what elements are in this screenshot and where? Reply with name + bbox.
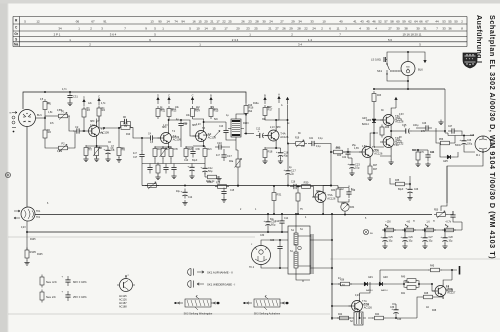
node T1e bbox=[96, 145, 98, 147]
wire T8 in bbox=[431, 283, 435, 291]
svg-text:NPF: NPF bbox=[90, 121, 95, 123]
wire DIN right bbox=[36, 117, 46, 119]
oscillator coil S2 bbox=[352, 309, 366, 325]
electrolytic C101 bbox=[200, 165, 213, 175]
wire node to R2 bbox=[44, 118, 46, 128]
svg-text:R105: R105 bbox=[30, 239, 36, 241]
svg-text:10: 10 bbox=[196, 27, 200, 31]
component locator table bbox=[13, 17, 467, 47]
capacitor C22 bbox=[342, 148, 351, 159]
svg-text:R45: R45 bbox=[430, 266, 435, 268]
potentiometer P1 bbox=[56, 110, 70, 120]
resistor R1 bbox=[43, 99, 51, 112]
svg-text:C14: C14 bbox=[275, 221, 280, 223]
record-play head TK1 bbox=[14, 207, 41, 221]
wire row y163 bbox=[142, 163, 205, 165]
capacitor C14 bbox=[275, 217, 285, 227]
supply arrow A4 bbox=[278, 92, 280, 103]
wire R16 top bbox=[245, 102, 247, 104]
svg-text:GR3: GR3 bbox=[366, 118, 372, 122]
diode GR1 bbox=[361, 282, 374, 292]
svg-text:C12: C12 bbox=[256, 129, 261, 131]
resistor R102 bbox=[25, 248, 36, 261]
wire input to P1 bbox=[45, 116, 56, 118]
svg-text:10µ: 10µ bbox=[449, 241, 454, 243]
svg-text:50µ: 50µ bbox=[208, 169, 213, 173]
svg-text:+: + bbox=[283, 168, 285, 172]
svg-text:R13: R13 bbox=[172, 109, 177, 111]
svg-text:R16: R16 bbox=[248, 105, 253, 107]
wire trimmer down bbox=[344, 211, 346, 214]
capacitor C29b bbox=[450, 211, 455, 221]
ground lower2 bbox=[171, 174, 176, 179]
svg-text:NPF: NPF bbox=[162, 127, 167, 129]
wire driver collector bbox=[370, 133, 374, 144]
wire R9 gnd bbox=[118, 157, 120, 160]
svg-text:2 3 4: 2 3 4 bbox=[232, 38, 239, 42]
svg-text:1,2V: 1,2V bbox=[196, 124, 201, 126]
ground C18 bbox=[278, 159, 283, 164]
wire T7 emitter bbox=[359, 314, 361, 319]
wire top feedback bus bbox=[23, 92, 246, 109]
svg-text:60: 60 bbox=[396, 20, 400, 24]
svg-text:C24: C24 bbox=[430, 152, 435, 154]
svg-text:R42: R42 bbox=[338, 314, 343, 316]
svg-text:36: 36 bbox=[448, 27, 452, 31]
wire R35 link bbox=[390, 176, 410, 186]
svg-text:14: 14 bbox=[166, 20, 170, 24]
svg-text:Na: Na bbox=[14, 42, 18, 46]
wire C9 loop bbox=[121, 122, 131, 128]
ground C101 bbox=[216, 176, 221, 181]
wire R33 top bbox=[331, 186, 349, 188]
wire r50 in bbox=[441, 166, 447, 211]
node trimmer bus bbox=[344, 214, 346, 216]
electrolytic C18 bbox=[276, 149, 289, 159]
svg-text:C22: C22 bbox=[342, 157, 347, 159]
svg-text:+: + bbox=[400, 235, 402, 239]
svg-text:R21: R21 bbox=[208, 149, 213, 151]
svg-text:1,1V: 1,1V bbox=[163, 125, 168, 127]
svg-text:R27: R27 bbox=[373, 165, 378, 167]
node out-left bbox=[373, 88, 375, 90]
svg-text:60µ: 60µ bbox=[270, 219, 275, 221]
oscillator coils bbox=[294, 226, 313, 274]
meas arrow 1 bbox=[385, 221, 391, 228]
svg-text:+: + bbox=[187, 164, 189, 168]
svg-text:C15: C15 bbox=[230, 190, 235, 192]
paper fold line lower bbox=[8, 313, 330, 315]
svg-text:GR2: GR2 bbox=[383, 277, 388, 279]
legend SK3 record bbox=[243, 296, 289, 316]
svg-text:Neu s%: Neu s% bbox=[46, 295, 56, 299]
motor M1 bbox=[475, 136, 491, 157]
terminal LS bbox=[384, 57, 387, 62]
DIN input socket BU1 bbox=[19, 110, 43, 127]
svg-text:C26: C26 bbox=[409, 237, 414, 239]
wire reg left bbox=[379, 270, 381, 284]
wire T8 emitter bbox=[435, 297, 443, 299]
svg-text:C2: C2 bbox=[75, 125, 79, 129]
resistor R100b bbox=[205, 175, 219, 183]
transistor T3 bbox=[193, 128, 217, 144]
wire bus y232 bbox=[27, 231, 288, 233]
svg-text:C28: C28 bbox=[449, 237, 454, 239]
svg-text:NPF: NPF bbox=[276, 127, 281, 129]
wire T5A base2 bbox=[373, 119, 383, 121]
legend cap1 bbox=[62, 276, 88, 287]
wire C101 link bbox=[204, 159, 206, 165]
ground T6A bbox=[389, 160, 394, 165]
node T4e bbox=[275, 147, 277, 149]
svg-text:M.1: M.1 bbox=[476, 154, 481, 157]
svg-text:R20: R20 bbox=[189, 149, 194, 151]
wire driver emitter bbox=[369, 160, 371, 165]
svg-text:1Ω: 1Ω bbox=[426, 307, 429, 309]
resistor R16 bbox=[244, 103, 254, 116]
resistor R16b bbox=[153, 146, 157, 159]
svg-text:GR3: GR3 bbox=[362, 118, 367, 120]
wire left vertical upper bbox=[26, 127, 28, 208]
svg-text:44: 44 bbox=[435, 20, 439, 24]
wire R16 bot bbox=[245, 114, 247, 134]
resistor R11 bbox=[156, 106, 166, 119]
ground lower1 bbox=[155, 175, 160, 180]
wire output right bbox=[412, 130, 446, 132]
wire motor down bbox=[446, 157, 448, 170]
svg-text:64: 64 bbox=[414, 20, 418, 24]
wire R2 to P2 bbox=[45, 141, 56, 149]
svg-text:AC109: AC109 bbox=[203, 134, 211, 137]
svg-text:67: 67 bbox=[425, 20, 429, 24]
wire GR3 down bbox=[373, 126, 375, 134]
svg-text:25V ± 10%: 25V ± 10% bbox=[73, 295, 87, 299]
resistor R30 bbox=[299, 181, 313, 189]
misc value labels bbox=[21, 99, 475, 323]
wire speaker bottom rail bbox=[387, 74, 408, 89]
svg-text:T.5A: T.5A bbox=[327, 193, 333, 197]
svg-text:10µ: 10µ bbox=[429, 241, 434, 243]
svg-text:+: + bbox=[180, 189, 182, 193]
wire R56 bbox=[436, 128, 455, 143]
svg-text:50: 50 bbox=[454, 20, 458, 24]
svg-text:C28: C28 bbox=[470, 135, 475, 137]
wire R33 bottom bbox=[338, 199, 349, 202]
svg-text:46: 46 bbox=[372, 20, 376, 24]
wire R3 junction bbox=[83, 120, 85, 132]
svg-text:AC132: AC132 bbox=[395, 141, 403, 144]
svg-text:BA114: BA114 bbox=[366, 289, 373, 292]
wire C17a down bbox=[141, 161, 143, 186]
wire R31 link bbox=[273, 186, 275, 214]
wire S1 top bbox=[295, 213, 297, 226]
svg-text:57: 57 bbox=[384, 20, 388, 24]
wire x332 vertical bbox=[331, 214, 333, 320]
svg-text:R26: R26 bbox=[385, 127, 390, 129]
capacitor C29 bbox=[277, 243, 282, 253]
wire dashed to speaker bbox=[390, 70, 401, 72]
ground R9 bbox=[116, 157, 121, 162]
svg-text:62: 62 bbox=[408, 20, 412, 24]
svg-text:25: 25 bbox=[254, 27, 258, 31]
svg-text:R30: R30 bbox=[304, 181, 309, 185]
svg-text:R16: R16 bbox=[158, 149, 163, 151]
wire P2 out bbox=[70, 131, 75, 148]
node x331 bus bbox=[330, 185, 332, 187]
input icons bbox=[10, 112, 18, 133]
svg-text:R10: R10 bbox=[126, 134, 131, 136]
svg-text:C17: C17 bbox=[227, 154, 232, 158]
wire coupling T2-T3 bbox=[169, 119, 196, 136]
wire P1 to T1 base bbox=[69, 116, 86, 131]
svg-text:T.4A: T.4A bbox=[280, 132, 286, 136]
node C21 out bbox=[330, 151, 332, 153]
wire reg top bbox=[380, 269, 457, 271]
svg-text:R31: R31 bbox=[277, 193, 282, 197]
svg-text:C30: C30 bbox=[260, 235, 265, 237]
resistor R53 bbox=[422, 228, 436, 232]
svg-text:33: 33 bbox=[310, 20, 314, 24]
svg-text:26: 26 bbox=[282, 27, 286, 31]
svg-text:R28a: R28a bbox=[207, 182, 213, 184]
svg-text:23: 23 bbox=[246, 27, 250, 31]
wire C29 link bbox=[279, 239, 281, 269]
svg-text:14: 14 bbox=[204, 27, 208, 31]
svg-text:29: 29 bbox=[289, 27, 293, 31]
svg-text:100µ: 100µ bbox=[467, 144, 473, 146]
resistor R51 bbox=[382, 228, 396, 232]
ground C10a bbox=[189, 174, 194, 179]
wire row3 bbox=[186, 145, 205, 148]
wire r24 row bbox=[412, 149, 428, 151]
trimmer R34 bbox=[341, 203, 355, 211]
svg-text:33: 33 bbox=[442, 27, 446, 31]
svg-text:R40: R40 bbox=[405, 282, 410, 284]
svg-text:35: 35 bbox=[366, 27, 370, 31]
wire C31 stub bbox=[69, 91, 71, 94]
wire T5 emitter bbox=[322, 205, 324, 214]
svg-text:0,5M: 0,5M bbox=[57, 151, 62, 153]
svg-text:0,1V: 0,1V bbox=[90, 125, 95, 127]
transistor T4 bbox=[265, 128, 289, 144]
wire c10 link bbox=[215, 147, 230, 151]
electrolytic C25 bbox=[402, 124, 419, 134]
wire T4 collector bbox=[275, 108, 279, 128]
svg-text:C25: C25 bbox=[389, 237, 394, 239]
svg-text:R36: R36 bbox=[340, 280, 345, 282]
node R31 bus bbox=[273, 213, 275, 215]
svg-text:12: 12 bbox=[36, 20, 40, 24]
wire C17a up bbox=[141, 137, 143, 151]
resistor R13 bbox=[167, 106, 177, 119]
node y184 a bbox=[184, 185, 186, 187]
svg-text:B: B bbox=[264, 93, 266, 97]
svg-text:26: 26 bbox=[241, 20, 245, 24]
ground motor top bbox=[438, 110, 443, 125]
svg-text:Neu m%: Neu m% bbox=[46, 280, 57, 284]
ground C26 bbox=[407, 195, 412, 200]
svg-text:C10: C10 bbox=[217, 141, 222, 145]
svg-text:GR1: GR1 bbox=[368, 277, 373, 279]
wire C12 to T4 bbox=[266, 135, 268, 137]
resistor R36 bbox=[338, 280, 352, 286]
wire driver base bbox=[343, 151, 362, 153]
wire C28 top bbox=[463, 135, 465, 137]
potentiometer R24b bbox=[145, 182, 159, 189]
resistor R21b bbox=[203, 146, 207, 159]
svg-text:27: 27 bbox=[280, 20, 284, 24]
node R9 bbox=[118, 127, 120, 129]
wire R48 out bbox=[417, 297, 421, 318]
svg-text:TK1: TK1 bbox=[36, 210, 41, 213]
wire C30 link bbox=[267, 213, 269, 233]
svg-text:+: + bbox=[200, 165, 202, 169]
ground meas 1 bbox=[402, 244, 407, 249]
resistor R18 bbox=[263, 147, 273, 160]
transistor T5A driver bbox=[359, 144, 383, 160]
potentiometer R24a bbox=[235, 157, 242, 170]
svg-text:BA114: BA114 bbox=[362, 123, 369, 126]
resistor R23 bbox=[372, 91, 382, 104]
svg-text:34: 34 bbox=[298, 20, 302, 24]
wire T3 to volume bbox=[204, 122, 236, 140]
capacitor C10b bbox=[215, 141, 225, 150]
electrolytic C36 bbox=[391, 306, 398, 316]
node speaker bottom bbox=[407, 80, 409, 82]
svg-text:16: 16 bbox=[192, 20, 196, 24]
potentiometer R17b bbox=[160, 146, 167, 159]
wire C11 down bbox=[180, 130, 182, 148]
svg-text:13: 13 bbox=[150, 20, 154, 24]
svg-text:24V: 24V bbox=[421, 131, 426, 133]
node T2c bbox=[168, 119, 170, 121]
wire c27 bbox=[458, 131, 462, 136]
svg-text:R29: R29 bbox=[337, 155, 342, 157]
resistor R44 bbox=[372, 314, 386, 320]
svg-text:AC126: AC126 bbox=[362, 304, 370, 307]
svg-text:0,5M: 0,5M bbox=[57, 110, 62, 112]
legend transistor bbox=[117, 275, 135, 292]
wire motor bottom bbox=[447, 152, 483, 203]
svg-text:AC126: AC126 bbox=[372, 150, 380, 153]
ground C15 bbox=[221, 197, 226, 202]
svg-text:SK3 Stellung Wiedergabe: SK3 Stellung Wiedergabe bbox=[184, 313, 213, 316]
resistor R40 bbox=[401, 277, 419, 283]
wire row2 stub bbox=[155, 147, 171, 148]
resistor R2 bbox=[43, 128, 51, 141]
wire output top bus bbox=[374, 88, 445, 90]
svg-text:19 16 18 20 11: 19 16 18 20 11 bbox=[402, 33, 421, 37]
capacitor C13 bbox=[219, 126, 229, 137]
capacitor C24c bbox=[425, 151, 435, 161]
svg-text:3V: 3V bbox=[323, 193, 326, 195]
wire R32 link bbox=[297, 186, 299, 215]
capacitor C16 bbox=[290, 182, 300, 190]
supply arrow B5 bbox=[210, 93, 212, 104]
wire right rail down bbox=[444, 89, 446, 133]
svg-text:+: + bbox=[347, 162, 349, 166]
svg-text:+: + bbox=[276, 150, 278, 154]
resistor R3 bbox=[82, 107, 86, 120]
capacitor C11 bbox=[178, 120, 188, 130]
svg-text:R40: R40 bbox=[401, 277, 406, 279]
node R24a-bus bbox=[237, 185, 239, 187]
supply arrow A down bbox=[424, 56, 426, 63]
ground R8 bbox=[94, 157, 99, 162]
svg-text:60µF: 60µF bbox=[192, 160, 198, 162]
volume control R103 bbox=[228, 116, 249, 140]
diode GR5 bbox=[443, 155, 455, 163]
resistor R26 bbox=[376, 125, 384, 138]
svg-text:P2: P2 bbox=[61, 142, 65, 146]
svg-text:0,3V: 0,3V bbox=[399, 114, 404, 116]
legend cap2 bbox=[62, 291, 88, 302]
svg-text:55: 55 bbox=[448, 20, 452, 24]
paper fold line upper bbox=[8, 236, 255, 238]
svg-text:R14: R14 bbox=[195, 109, 200, 111]
svg-text:74: 74 bbox=[174, 20, 178, 24]
transistor T5A bbox=[380, 112, 404, 128]
svg-text:R34: R34 bbox=[350, 207, 355, 209]
resistor R20b bbox=[184, 146, 188, 159]
svg-text:30: 30 bbox=[262, 20, 266, 24]
wire C4 to T2 bbox=[157, 137, 161, 139]
resistor R48 bbox=[421, 293, 435, 299]
wire T5A collector bbox=[391, 104, 396, 112]
ground C24c bbox=[425, 162, 430, 167]
title Ausfuehrung I bbox=[475, 15, 484, 63]
svg-text:R16a: R16a bbox=[253, 103, 259, 105]
resistor R18b bbox=[169, 146, 173, 159]
node x332 y214 bbox=[331, 213, 333, 215]
svg-text:0,2V: 0,2V bbox=[355, 295, 360, 297]
svg-text:GR5: GR5 bbox=[443, 161, 448, 163]
resistor R24c bbox=[412, 150, 420, 163]
wire R17 link bbox=[265, 118, 276, 120]
wire bus y214 bbox=[35, 214, 432, 216]
svg-text:53: 53 bbox=[442, 20, 446, 24]
svg-text:10µ: 10µ bbox=[389, 241, 394, 243]
diode GR2 bbox=[376, 282, 389, 292]
resistor R28a bbox=[215, 185, 229, 189]
lamp La bbox=[363, 229, 373, 235]
svg-text:1,8V: 1,8V bbox=[362, 146, 367, 148]
capacitor C17b bbox=[216, 151, 232, 161]
wire speaker stub bbox=[407, 52, 409, 62]
capacitor C27 bbox=[448, 126, 458, 134]
svg-text:24: 24 bbox=[312, 27, 316, 31]
svg-text:~60: ~60 bbox=[406, 221, 411, 224]
wire C17 link bbox=[287, 143, 289, 187]
svg-text:0,2V: 0,2V bbox=[21, 227, 26, 229]
svg-text:R17: R17 bbox=[268, 107, 273, 109]
electrolytic C43 bbox=[440, 234, 453, 244]
node bus-C31 bbox=[69, 91, 71, 93]
ground left bbox=[24, 260, 29, 265]
resistor R45 bbox=[428, 266, 442, 272]
resistor R56 bbox=[438, 139, 452, 145]
svg-text:1 4: 1 4 bbox=[308, 38, 312, 42]
svg-text:T.7A: T.7A bbox=[362, 300, 367, 303]
svg-text:BL6: BL6 bbox=[418, 68, 423, 72]
svg-text:31: 31 bbox=[423, 27, 427, 31]
svg-text:R2a: R2a bbox=[229, 161, 234, 163]
svg-text:90: 90 bbox=[158, 20, 162, 24]
supply arrow C4 bbox=[191, 93, 193, 104]
wire bus y184 bbox=[142, 185, 331, 187]
transistor T2 bbox=[158, 130, 182, 146]
svg-text:25µ: 25µ bbox=[352, 145, 357, 147]
